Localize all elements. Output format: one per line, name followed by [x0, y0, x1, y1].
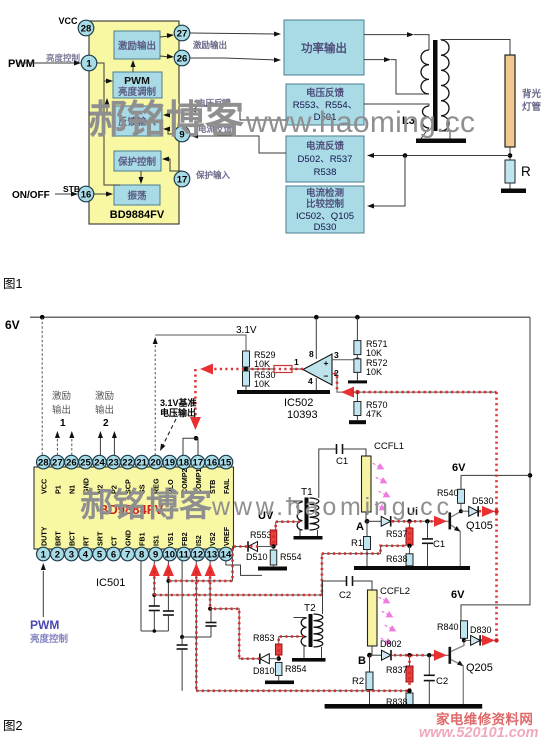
label BD9884FV	[110, 209, 165, 221]
svg-text:郝铭博客: 郝铭博客	[88, 99, 244, 142]
node R537 R638	[407, 544, 411, 548]
svg-text:BCT: BCT	[67, 531, 76, 546]
transformer fig1 core	[433, 40, 438, 131]
function block 保护控制 (protection control)	[114, 151, 161, 171]
svg-text:R840: R840	[437, 622, 459, 632]
wire secondary top to lamp	[441, 40, 510, 56]
red tap wire T2	[279, 637, 304, 645]
pin 20 REG	[149, 455, 163, 494]
arrow out pin 26	[69, 431, 74, 455]
svg-text:IC502、Q105: IC502、Q105	[296, 211, 354, 222]
pin 8 FB1	[135, 532, 149, 560]
wire feedback block to PWM modulator	[105, 98, 114, 115]
transformer T1 primary	[286, 501, 303, 530]
svg-text:保护控制: 保护控制	[117, 156, 157, 168]
wire pin 10 VS1 down	[167, 561, 169, 611]
wire current feedback block to pin 9	[191, 134, 286, 154]
svg-text:PWM: PWM	[8, 58, 35, 70]
svg-text:R537: R537	[386, 529, 408, 539]
watermark haoming fig2	[80, 486, 453, 523]
svg-text:16: 16	[81, 189, 92, 200]
wire pin 14 VREF	[226, 561, 262, 575]
svg-text:23: 23	[108, 458, 119, 469]
svg-text:3.1V基准: 3.1V基准	[160, 397, 197, 408]
svg-text:C2: C2	[339, 590, 351, 601]
svg-text:B: B	[358, 655, 366, 667]
svg-text:CCFL2: CCFL2	[380, 586, 410, 597]
ground bar under R	[501, 189, 526, 194]
transformer T2 secondary	[314, 614, 323, 647]
resistor R638	[386, 546, 413, 566]
block 电流反馈 current feedback D502 R537 R538	[286, 136, 364, 182]
svg-text:功率输出: 功率输出	[301, 41, 347, 55]
svg-text:6V: 6V	[452, 462, 466, 474]
svg-text:10K: 10K	[366, 367, 382, 377]
red path vertical right side	[495, 392, 498, 640]
svg-text:激励: 激励	[52, 390, 71, 402]
node R837 R838	[407, 689, 411, 693]
capacitor FB2-VS2	[206, 609, 217, 637]
svg-text:IS2: IS2	[194, 535, 203, 546]
svg-text:10K: 10K	[254, 379, 270, 389]
svg-text:N1: N1	[67, 485, 76, 494]
svg-text:3: 3	[334, 350, 339, 360]
label 亮度控制	[46, 53, 81, 63]
svg-text:VS2: VS2	[208, 532, 217, 546]
pin 1 brightness control input	[81, 55, 97, 71]
pin 9 current feedback	[174, 126, 190, 142]
pin 16 STB	[205, 455, 219, 494]
wire cap to lamp CCFL2	[353, 581, 373, 590]
wire diode to Q105 base	[391, 520, 448, 522]
svg-text:P1: P1	[53, 485, 62, 494]
wire pin1 to PWM modulator and oscillator	[97, 63, 120, 185]
node B	[358, 653, 372, 667]
wire diode to Q205 base	[391, 654, 448, 656]
pin 28 VCC	[37, 455, 51, 494]
wire T2 secondary top to coupling cap	[323, 581, 347, 614]
red path D830 to vertical	[481, 635, 499, 646]
node R537 top	[407, 519, 411, 523]
wire lamp to node B	[370, 646, 373, 672]
wire lamp bottom to sense node	[509, 147, 511, 160]
wire PWM to pin 1	[16, 61, 81, 66]
function block 激励输出 (drive output)	[114, 31, 160, 59]
pin 24 N2	[93, 455, 107, 494]
transistor Q205	[449, 638, 493, 704]
red path VS2 to D810	[210, 609, 260, 659]
svg-text:GND: GND	[124, 530, 133, 546]
wire pin 1 DUTY down to PWM control	[41, 563, 46, 617]
wire pin 17 into protection block	[162, 157, 182, 172]
wire drive block to pin 26	[160, 54, 174, 59]
ground bar under R572	[348, 380, 367, 383]
label 激励输出 1	[52, 390, 71, 429]
pin 10 VS1	[163, 532, 177, 560]
ground bar under R530 and IC502	[237, 390, 330, 394]
svg-text:D530: D530	[314, 222, 337, 233]
wire R570 ground	[356, 416, 358, 421]
svg-text:振荡: 振荡	[127, 190, 147, 202]
wire pin 8 FB1 down	[140, 561, 142, 631]
function block 反馈输入 (feedback input)	[113, 106, 162, 136]
label 激励输出 2	[95, 390, 114, 429]
ground bar under transformer fig1	[416, 139, 466, 144]
svg-text:9: 9	[153, 549, 158, 560]
svg-text:28: 28	[38, 458, 49, 469]
svg-text:亮度控制: 亮度控制	[30, 633, 69, 645]
svg-text:输出: 输出	[95, 404, 114, 416]
svg-text:R554: R554	[280, 552, 302, 562]
svg-text:5: 5	[97, 549, 103, 560]
block 电压反馈 voltage feedback R553 R554 D501	[286, 84, 364, 125]
red path into sense pin	[205, 563, 216, 609]
node VS2 tee	[208, 607, 212, 611]
svg-text:22: 22	[122, 458, 133, 469]
wire opamp pin2 sense line	[332, 374, 497, 393]
svg-text:图2: 图2	[3, 719, 23, 733]
wire 3.1V reference from pin 20	[153, 335, 246, 455]
svg-text:www.haoming.cc: www.haoming.cc	[245, 106, 475, 139]
svg-text:3: 3	[69, 549, 74, 560]
svg-text:R638: R638	[386, 554, 408, 564]
wire pin 11 FB2 down	[181, 561, 183, 637]
resistor R840	[437, 621, 468, 641]
inductor L3 feedback winding	[402, 106, 429, 128]
node feedback branch	[403, 153, 408, 158]
resistor R571	[354, 339, 388, 358]
svg-text:10K: 10K	[254, 359, 270, 369]
svg-text:18: 18	[179, 458, 190, 469]
wire PWM modulator to drive block	[131, 60, 136, 72]
svg-text:4: 4	[308, 376, 313, 386]
ground bar channel2	[325, 704, 483, 709]
transformer T2 core	[309, 614, 313, 647]
svg-text:27: 27	[177, 28, 188, 39]
resistor R540	[437, 488, 465, 503]
svg-text:12: 12	[193, 549, 204, 560]
node Q205 collector	[462, 638, 466, 642]
svg-text:C1: C1	[433, 539, 445, 550]
pin 23 P2	[107, 455, 121, 494]
pin 11 FB2	[177, 532, 191, 560]
transformer fig1 secondary winding	[441, 40, 449, 131]
resistor R553	[250, 530, 277, 547]
annotation dashed arrow to pin 20	[160, 419, 176, 451]
label IC501	[96, 577, 125, 589]
transformer T2 label	[304, 603, 316, 614]
diode D530	[461, 496, 494, 517]
label 3.1V基准电压输出	[160, 397, 197, 418]
svg-text:6: 6	[111, 549, 116, 560]
svg-text:17: 17	[193, 458, 204, 469]
wire pin 12 IS2 down	[195, 561, 197, 691]
pin 9 IS1	[149, 535, 163, 561]
wire pin 9 IS1 down	[153, 561, 155, 606]
node lamp current sense	[508, 153, 513, 158]
resistor R854	[275, 663, 306, 681]
resistor R570	[354, 400, 388, 419]
pin 3 BCT	[65, 531, 79, 561]
wire branch to current detect block	[367, 156, 405, 209]
footer url	[419, 725, 539, 741]
node R853 D810 R854	[277, 657, 281, 661]
wire FB1 bottom link	[141, 629, 168, 633]
wire ON/OFF to pin 16	[55, 192, 78, 197]
svg-text:26: 26	[66, 458, 77, 469]
resistor R572	[354, 355, 388, 377]
svg-text:激励输出: 激励输出	[118, 40, 156, 52]
svg-text:28: 28	[81, 23, 92, 34]
svg-text:www.520101.com: www.520101.com	[419, 725, 539, 741]
op-amp IC502 comparator	[294, 349, 339, 386]
svg-text:R854: R854	[285, 664, 307, 674]
svg-text:郝铭博客: 郝铭博客	[80, 486, 212, 523]
svg-text:7: 7	[125, 549, 130, 560]
pin 13 VS2	[205, 532, 219, 560]
svg-text:2: 2	[55, 549, 60, 560]
node R529 R530 junction	[244, 367, 249, 372]
capacitor C1 filter	[422, 521, 445, 566]
red path into sense pin	[191, 563, 202, 691]
svg-text:R1: R1	[351, 538, 363, 549]
pin 21 SS	[135, 455, 149, 494]
svg-text:D510: D510	[246, 552, 268, 562]
red path into sense pin	[149, 563, 160, 595]
pin 12 IS2	[191, 535, 205, 561]
wire R572 to ground	[356, 372, 358, 380]
resistor R fig1	[505, 160, 531, 183]
wire pin 8 into feedback block	[163, 110, 174, 118]
wire rail down to IC501 VCC pin28	[41, 317, 43, 455]
label 6V lower branch	[451, 589, 465, 601]
arrow out pin 24	[98, 431, 103, 455]
svg-text:4: 4	[83, 549, 89, 560]
arrow out pin 27	[55, 431, 60, 455]
svg-text:输出: 输出	[52, 404, 71, 416]
red path to Q105 base	[392, 516, 447, 527]
pin 22 SCP	[121, 455, 135, 494]
lamp CCFL2	[368, 586, 411, 646]
red path to Q205 base	[394, 650, 447, 661]
node R553 D510 R554	[271, 544, 275, 548]
wire pin 9 into feedback block	[163, 127, 174, 135]
svg-text:VREF: VREF	[222, 526, 231, 546]
svg-text:背光: 背光	[522, 88, 542, 100]
red path opamp output to comp pins	[190, 364, 303, 431]
svg-text:CCFL1: CCFL1	[374, 441, 404, 452]
svg-text:FB1: FB1	[138, 532, 147, 546]
svg-text:ON/OFF: ON/OFF	[12, 190, 50, 201]
resistor R530	[243, 370, 276, 389]
svg-text:D830: D830	[470, 625, 492, 635]
lamp CCFL1	[362, 441, 405, 512]
svg-text:1: 1	[294, 357, 299, 367]
capacitor FB2-IS2	[177, 637, 188, 691]
svg-text:+: +	[324, 358, 329, 368]
node A	[356, 519, 369, 533]
ground bar under T2	[292, 658, 326, 662]
pin 26 N1	[65, 455, 79, 494]
pin 4 RT	[79, 536, 93, 561]
diode D830	[464, 625, 492, 646]
svg-text:FB2: FB2	[180, 532, 189, 546]
svg-text:DUTY: DUTY	[39, 526, 48, 546]
red tap wire T1	[276, 522, 300, 530]
resistor R1	[351, 537, 371, 567]
capacitor FB1-VS1	[163, 611, 174, 631]
block 功率输出 power output	[284, 20, 364, 75]
wire pin 26 to power block	[190, 58, 281, 63]
arrow out pin 23	[112, 431, 117, 455]
svg-text:R553: R553	[250, 530, 272, 540]
svg-text:8: 8	[309, 349, 314, 359]
pin 14 VREF	[219, 526, 233, 561]
wire pin 13 VS2 down	[209, 561, 211, 609]
svg-text:SRT: SRT	[96, 531, 105, 546]
label BD9884FV red	[99, 502, 164, 517]
svg-text:PWM: PWM	[30, 618, 59, 632]
svg-text:10K: 10K	[366, 348, 382, 358]
svg-text:D802: D802	[380, 639, 402, 649]
resistor R853	[253, 633, 282, 659]
svg-text:14: 14	[221, 549, 232, 560]
svg-text:VCC: VCC	[58, 16, 78, 26]
svg-text:VS1: VS1	[166, 532, 175, 546]
svg-text:R538: R538	[314, 167, 337, 178]
svg-text:RT: RT	[81, 536, 90, 546]
svg-text:−: −	[324, 371, 329, 381]
svg-text:16: 16	[207, 458, 218, 469]
svg-text:BD9884FV: BD9884FV	[110, 209, 165, 221]
node rail opamp supply	[314, 315, 319, 320]
wire to R570	[356, 392, 358, 401]
svg-text:FAIL: FAIL	[222, 478, 231, 494]
svg-text:电压输出: 电压输出	[160, 407, 196, 418]
IC U501 BD9884FV body	[34, 467, 234, 549]
pin 2 BRT	[51, 531, 65, 561]
label 3.1V	[236, 325, 257, 336]
svg-text:IC502: IC502	[284, 397, 313, 409]
svg-text:A: A	[356, 521, 364, 533]
red path into opamp pin2	[334, 374, 497, 398]
pin 26 drive out N1	[174, 50, 190, 66]
capacitor C1 coupling	[336, 444, 348, 467]
pin 16 STB	[12, 184, 94, 202]
svg-text:C1: C1	[336, 456, 348, 467]
wire T2 grounds	[304, 646, 322, 658]
svg-text:10: 10	[164, 549, 175, 560]
wire power block to transformer primary bottom	[364, 57, 429, 94]
label 电压反馈 wire label	[197, 98, 232, 108]
function block 振荡 (oscillator)	[114, 185, 160, 205]
svg-text:47K: 47K	[366, 409, 382, 419]
pin 25 GND	[79, 455, 93, 494]
svg-text:13: 13	[207, 549, 218, 560]
wire voltage feedback block to pin 8	[189, 106, 286, 120]
sense feedback wire to current feedback block	[367, 153, 510, 158]
wire R530 to ground	[245, 386, 247, 390]
wire drive block to pin 27	[160, 33, 174, 38]
pin 6 CT	[107, 536, 121, 561]
6V branch to R540	[452, 462, 530, 489]
svg-text:6V: 6V	[5, 318, 20, 332]
label PWM 亮度控制 input	[30, 618, 69, 645]
diode D510	[246, 541, 274, 562]
svg-text:2: 2	[103, 418, 109, 429]
footer site name	[436, 711, 533, 727]
wire junction to pins 18 17	[183, 438, 198, 455]
node 6V branch R540	[528, 473, 533, 478]
transformer fig1 primary winding	[421, 50, 429, 94]
wire opamp supply pin 8	[315, 317, 317, 359]
backlight lamp 背光灯管	[505, 55, 542, 147]
ground bar under R570	[349, 420, 366, 424]
pin 5 SRT	[93, 531, 107, 561]
svg-text:CT: CT	[110, 536, 119, 546]
transformer T1 core	[305, 498, 309, 530]
wire pin 27 to power block	[190, 32, 281, 37]
label PWM input	[8, 58, 35, 70]
diode D802	[370, 639, 402, 660]
ground bar under R854	[265, 681, 294, 685]
resistor R529	[243, 350, 276, 369]
svg-text:6V: 6V	[451, 589, 465, 601]
svg-text:D530: D530	[472, 496, 494, 506]
svg-text:激励输出: 激励输出	[193, 40, 227, 50]
function block PWM 亮度调制	[113, 72, 162, 98]
capacitor FB1-IS1	[149, 606, 160, 631]
svg-text:PWM: PWM	[124, 75, 150, 87]
node rail R571	[355, 315, 360, 320]
node comp pins junction	[194, 436, 199, 441]
label Ui	[407, 506, 418, 518]
node VS1 tee	[166, 579, 170, 583]
label 图1	[3, 277, 23, 291]
transformer T2 primary	[294, 618, 307, 646]
svg-text:IS1: IS1	[152, 535, 161, 546]
red path IS1 line	[154, 546, 406, 595]
wire T1 secondary top to coupling cap	[319, 449, 336, 498]
svg-text:电流检测: 电流检测	[306, 187, 345, 199]
pin 19 VLO	[163, 455, 177, 494]
node C2 filter top	[427, 653, 431, 657]
svg-text:Q205: Q205	[466, 662, 493, 674]
ground bar under T1	[294, 536, 323, 540]
svg-text:25: 25	[80, 458, 91, 469]
pin 7 GND	[121, 530, 135, 561]
svg-text:电压反馈: 电压反馈	[306, 87, 345, 99]
svg-text:11: 11	[179, 549, 190, 560]
wire power block to transformer primary top	[364, 32, 429, 50]
svg-text:激励: 激励	[95, 390, 114, 402]
pin 27 P1	[51, 455, 65, 494]
red path D530 to vertical	[479, 506, 499, 517]
svg-text:R853: R853	[253, 633, 275, 643]
label UV	[258, 510, 274, 522]
svg-text:R837: R837	[386, 665, 408, 675]
transistor Q105	[449, 503, 493, 566]
resistor R838	[386, 693, 413, 707]
watermark haoming fig1	[88, 99, 475, 142]
wire R to ground	[509, 183, 511, 189]
wire rail to R571	[356, 317, 358, 340]
svg-text:8: 8	[139, 549, 144, 560]
node Q105 collector	[459, 509, 463, 513]
pin 27 drive out P1	[174, 25, 190, 41]
node R570 tap	[355, 390, 359, 394]
svg-text:R2: R2	[352, 676, 364, 687]
